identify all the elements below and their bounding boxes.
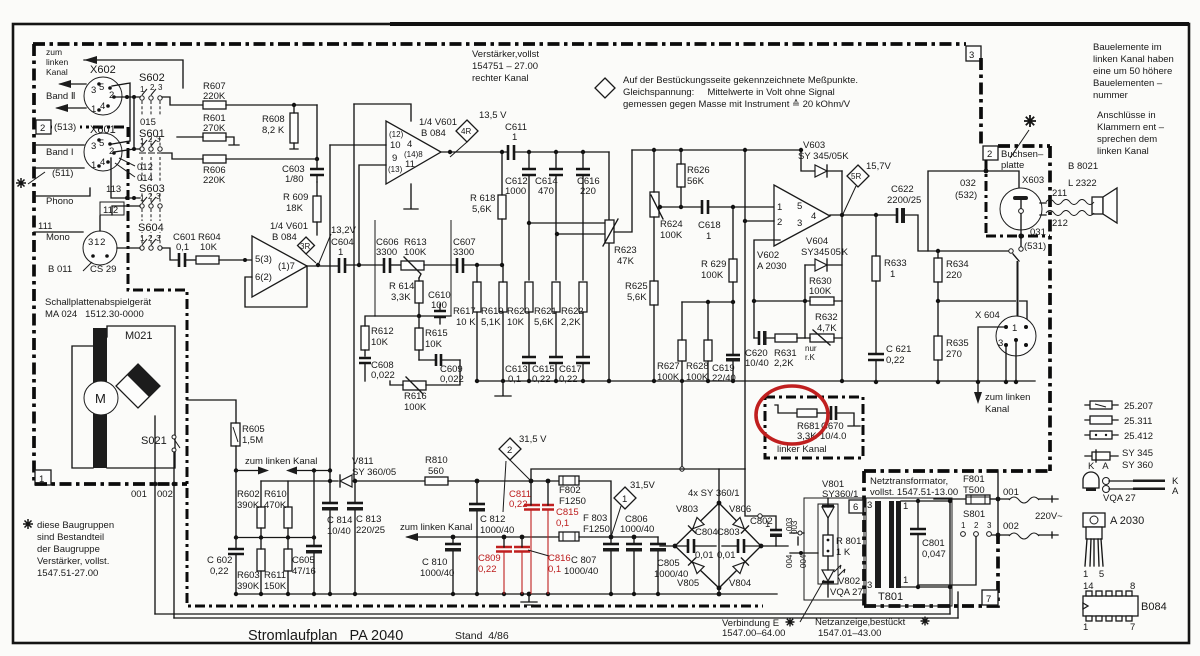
svg-text:004: 004 [799, 554, 808, 568]
svg-text:Stand 4/86: Stand 4/86 [455, 630, 509, 642]
capacitor C607 series [457, 258, 463, 273]
wire band I left [34, 144, 84, 146]
wire T801 to F801 [934, 499, 966, 501]
svg-text:1: 1 [903, 501, 908, 512]
svg-text:VQA 27: VQA 27 [830, 587, 863, 598]
label 112 box [100, 202, 124, 215]
svg-text:R611: R611 [264, 570, 286, 581]
wire 312 to S604 [117, 247, 140, 249]
wire 002 squiggle [996, 533, 1001, 538]
potentiometer R623 in series on signal line [608, 152, 610, 381]
svg-text:47K: 47K [617, 256, 635, 267]
svg-text:R 618: R 618 [470, 193, 495, 204]
svg-text:zum linken Kanal: zum linken Kanal [400, 522, 472, 533]
svg-text:F801: F801 [963, 474, 985, 485]
svg-text:220K: 220K [203, 91, 226, 102]
wire V602 pin2 to feedback vertical [745, 220, 774, 222]
motor M [84, 381, 118, 415]
resistor R681 [775, 405, 797, 413]
diode V604 [805, 264, 842, 266]
svg-text:linken: linken [46, 57, 68, 67]
svg-text:220: 220 [946, 270, 962, 281]
svg-text:3: 3 [156, 234, 161, 243]
svg-text:1 K: 1 K [836, 547, 851, 558]
svg-text:150K: 150K [264, 581, 287, 592]
wire R605 bottom to arrows row [235, 446, 237, 538]
svg-text:B 011: B 011 [48, 264, 72, 275]
svg-text:22/40: 22/40 [712, 373, 736, 384]
svg-text:25.311: 25.311 [1124, 416, 1152, 427]
svg-text:2: 2 [987, 149, 992, 160]
svg-text:M021: M021 [125, 330, 153, 342]
svg-text:0,1: 0,1 [508, 374, 521, 385]
divider rail [261, 480, 425, 482]
svg-text:0,22: 0,22 [478, 564, 497, 575]
svg-text:1: 1 [961, 521, 966, 530]
socket X602 [84, 77, 122, 115]
svg-text:R633: R633 [884, 258, 907, 269]
svg-text:C804: C804 [695, 527, 718, 538]
measurement note diamond [595, 78, 615, 98]
svg-text:R625: R625 [625, 281, 648, 292]
wire C622 down to speaker line [905, 215, 1008, 251]
svg-text:31,5 V: 31,5 V [519, 434, 547, 445]
buchsenplatte block dash-dot top [998, 144, 1050, 148]
filter box rectangle [375, 220, 451, 316]
svg-text:T801: T801 [878, 591, 903, 603]
svg-text:47/16: 47/16 [292, 566, 316, 577]
svg-text:111: 111 [38, 221, 52, 232]
arrow zum linken kanal right [977, 382, 979, 398]
svg-text:Auf der Bestückungsseite geken: Auf der Bestückungsseite gekennzeichnete… [623, 75, 858, 86]
capacitor C807 electrolytic [603, 543, 619, 546]
pointer line buchsenplatte asterisk [1010, 130, 1029, 158]
wire R613 to C607 [424, 264, 457, 266]
power block dash-dot top [864, 469, 1050, 473]
svg-text:1: 1 [1083, 622, 1088, 633]
wire R604 to opamp [219, 259, 252, 261]
capacitor C606 series [384, 258, 390, 273]
wire X601 to S601 [114, 149, 140, 152]
svg-text:470: 470 [538, 186, 554, 197]
wire vertical 001-002 node [997, 471, 999, 535]
wire arrows zum linken kanal [236, 470, 264, 472]
svg-text:Mono: Mono [46, 232, 70, 243]
resistor R617 [473, 282, 481, 312]
svg-text:032: 032 [960, 178, 976, 189]
resistor R606 [203, 155, 226, 163]
squiggle wire 212 [1046, 211, 1094, 216]
buchsenplatte dash-dot left edge [985, 160, 988, 236]
svg-text:Kanal: Kanal [985, 404, 1009, 415]
svg-text:2: 2 [777, 217, 782, 228]
svg-text:270K: 270K [203, 123, 226, 134]
svg-text:3: 3 [867, 500, 872, 511]
resistor R608 [290, 113, 298, 143]
svg-text:linken Kanal haben: linken Kanal haben [1093, 54, 1174, 65]
wire node down to C603 node [316, 105, 318, 159]
svg-text:0,22: 0,22 [210, 566, 229, 577]
capacitor C803 [738, 539, 744, 553]
resistor R627 [678, 340, 686, 361]
switch S603 [138, 182, 168, 193]
switch S601 contacts [140, 147, 144, 151]
svg-text:C 813: C 813 [356, 514, 381, 525]
capacitor C609 [436, 354, 441, 366]
svg-text:100K: 100K [404, 402, 427, 413]
switch linkage dashed verticals [142, 101, 160, 245]
capacitor C804 [688, 539, 694, 553]
svg-text:1000/40: 1000/40 [620, 524, 654, 535]
svg-text:V603: V603 [803, 140, 825, 151]
svg-text:S604: S604 [138, 222, 164, 234]
svg-text:R 801: R 801 [836, 536, 861, 547]
svg-text:C 621: C 621 [886, 344, 911, 355]
ground symbol bottom bus [521, 594, 537, 605]
op-amp U1a V601 first stage [252, 236, 307, 297]
wire V602 pin3 to divider [754, 240, 805, 338]
svg-text:B 084: B 084 [421, 128, 446, 139]
legend LED VQA27 [1083, 472, 1099, 488]
wire R606 to node [226, 158, 317, 160]
svg-text:4: 4 [100, 101, 105, 112]
svg-text:R624: R624 [660, 219, 683, 230]
capacitor C810 electrolytic [445, 543, 461, 546]
svg-text:2,2K: 2,2K [561, 317, 581, 328]
svg-text:2: 2 [148, 234, 153, 243]
wire bottom 001 002 to power [950, 587, 958, 618]
svg-text:10/40: 10/40 [327, 526, 351, 537]
diamond 5R testpoint [847, 165, 869, 187]
wire C607 to R618 node [463, 264, 502, 266]
svg-text:Phono: Phono [46, 196, 73, 207]
capacitor C605 electrolytic [306, 545, 322, 548]
wire M021 to S021 [155, 416, 174, 484]
capacitor C603 [310, 169, 324, 175]
svg-text:1: 1 [622, 494, 627, 505]
svg-text:C 602: C 602 [207, 555, 232, 566]
svg-text:R616: R616 [404, 391, 427, 402]
svg-text:10K: 10K [507, 317, 525, 328]
svg-text:1: 1 [1012, 323, 1017, 334]
inner chain box [818, 504, 838, 584]
svg-text:F802: F802 [559, 485, 581, 496]
red capacitor C811 [524, 505, 540, 510]
resistor R625 [650, 281, 658, 305]
svg-text:5R: 5R [851, 172, 861, 181]
resistor R801 boxed [823, 535, 833, 556]
svg-text:1547.00–64.00: 1547.00–64.00 [722, 628, 785, 639]
svg-text:4: 4 [100, 157, 105, 168]
svg-text:3: 3 [156, 135, 161, 144]
switch lever to X604 [1013, 254, 1019, 261]
svg-text:V802: V802 [838, 576, 860, 587]
svg-text:C 807: C 807 [571, 555, 596, 566]
svg-text:T500: T500 [963, 485, 985, 496]
stereo link wire X602 to X601 [112, 83, 130, 144]
wire bridge left to C805 [660, 545, 675, 547]
svg-text:R810: R810 [425, 455, 448, 466]
svg-text:3: 3 [91, 141, 96, 152]
phono block dash-dot border [128, 127, 763, 606]
svg-text:B 8021: B 8021 [1068, 161, 1098, 172]
svg-text:SY 345: SY 345 [1122, 448, 1153, 459]
svg-text:1: 1 [765, 519, 770, 530]
resistor R622 [579, 282, 587, 312]
svg-text:2,2K: 2,2K [774, 358, 794, 369]
svg-text:0,01: 0,01 [695, 550, 714, 561]
svg-text:6: 6 [853, 502, 858, 513]
bridge diode V804 [733, 558, 749, 574]
ground bus bottom [236, 593, 777, 595]
svg-text:3: 3 [91, 85, 96, 96]
wire ground bus to rail crossing [681, 381, 683, 466]
wire X604 pin3 left down [978, 327, 1004, 382]
svg-text:V811: V811 [352, 456, 373, 467]
potentiometer R613 [401, 261, 424, 270]
switch bus wire vertical [133, 97, 135, 149]
svg-text:15,7V: 15,7V [866, 161, 891, 172]
wire S604 to C601 [162, 248, 178, 260]
svg-text:4: 4 [407, 139, 412, 150]
diamond 1 testpoint [614, 487, 636, 509]
svg-text:C803: C803 [717, 527, 740, 538]
svg-text:31,5V: 31,5V [630, 480, 655, 491]
ground symbol on bus [495, 381, 511, 396]
rail to linken kanal arrow [407, 536, 559, 538]
svg-text:031: 031 [1030, 227, 1046, 238]
svg-text:100K: 100K [686, 372, 709, 383]
svg-text:F 803: F 803 [583, 513, 607, 524]
resistor R629 [729, 259, 737, 282]
resistor R611 [284, 549, 292, 571]
svg-text:1: 1 [706, 231, 711, 242]
svg-text:1000/40: 1000/40 [420, 568, 454, 579]
mid junction row [236, 537, 314, 539]
svg-text:2: 2 [974, 521, 979, 530]
wire F802 to corner [579, 481, 611, 537]
feedback node wire R629 bottom [682, 301, 733, 303]
svg-text:0,1: 0,1 [548, 564, 561, 575]
bridge rectifier outline [675, 503, 761, 588]
svg-text:10/4.0: 10/4.0 [820, 431, 846, 442]
svg-text:sind Bestandteil: sind Bestandteil [37, 532, 104, 543]
red capacitor C809 [496, 547, 512, 552]
output node V602 [830, 214, 897, 216]
bridge diode V803 [689, 517, 705, 533]
svg-text:3300: 3300 [376, 247, 397, 258]
resistor R635 [934, 336, 942, 360]
op-amp U2 V602 power amp [774, 185, 830, 246]
capacitor C615 [549, 357, 563, 363]
diamond 4R testpoint [456, 120, 478, 142]
svg-text:13,5 V: 13,5 V [479, 110, 507, 121]
wire up to X603 032 pin [928, 171, 1019, 251]
resistor R615 [415, 328, 423, 350]
legend resistor 25.412 [1085, 434, 1118, 436]
svg-text:1000/40: 1000/40 [564, 566, 598, 577]
svg-text:1: 1 [777, 202, 782, 213]
wire band II lower with arrow [57, 107, 86, 109]
svg-text:SY 360/05: SY 360/05 [352, 467, 396, 478]
resistor R620 [525, 282, 533, 312]
svg-text:390K: 390K [237, 500, 260, 511]
capacitor C613 [522, 357, 536, 363]
wire rail corner down to 003 node [745, 469, 757, 516]
diamond 3R testpoint [298, 237, 315, 254]
svg-text:C801: C801 [922, 538, 945, 549]
wires 001 002 bottom run [155, 614, 958, 618]
svg-text:Bauelementen –: Bauelementen – [1093, 78, 1163, 89]
socket 312 phono [83, 231, 117, 265]
svg-text:R617: R617 [453, 306, 476, 317]
bridge diode V805 [689, 558, 705, 574]
diamond 2 testpoint [499, 438, 521, 460]
svg-text:L 2322: L 2322 [1068, 178, 1097, 189]
svg-text:R634: R634 [946, 259, 969, 270]
svg-text:270: 270 [946, 349, 962, 360]
svg-text:C815: C815 [556, 507, 579, 518]
svg-text:B 084: B 084 [272, 232, 297, 243]
wire C611 to caps [514, 151, 609, 153]
socket X603 [1000, 188, 1042, 230]
ground bus main [503, 380, 1035, 382]
svg-text:002: 002 [1003, 521, 1019, 532]
netzanzeige block outline [804, 498, 864, 600]
svg-text:0,22: 0,22 [509, 499, 528, 510]
junction C813 column [353, 479, 357, 483]
svg-text:Bauelemente im: Bauelemente im [1093, 42, 1162, 53]
svg-text:100K: 100K [404, 247, 427, 258]
svg-text:220/25: 220/25 [356, 525, 385, 536]
legend resistor 25.207 [1085, 404, 1118, 406]
wire X603 bottom 031 [1020, 214, 1022, 246]
svg-text:Band I: Band I [46, 147, 73, 158]
amplifier block top dash-dot border [33, 42, 966, 46]
svg-text:0,01: 0,01 [717, 550, 736, 561]
svg-text:C809: C809 [478, 553, 501, 564]
svg-text:012: 012 [137, 162, 153, 173]
svg-text:154751 – 27.00: 154751 – 27.00 [472, 61, 538, 72]
svg-text:7: 7 [1130, 622, 1135, 633]
wire C606 to R613 [390, 264, 401, 266]
capacitor C611 series [508, 145, 514, 160]
svg-text:10K: 10K [371, 337, 389, 348]
resistor R603 [257, 549, 265, 571]
svg-text:3300: 3300 [453, 247, 474, 258]
wire bridge bottom to bus [718, 588, 720, 594]
speaker B8021 [1092, 197, 1103, 214]
svg-text:5,6K: 5,6K [534, 317, 554, 328]
feedback wire V602 top [632, 149, 801, 151]
svg-text:1000/40: 1000/40 [480, 525, 514, 536]
capacitor C618 series [702, 200, 708, 214]
capacitor C612 [522, 169, 536, 175]
svg-text:13,2V: 13,2V [331, 225, 356, 236]
asterisk near buchsenplatte [1024, 115, 1036, 127]
LED V802 [822, 570, 834, 581]
svg-text:sprechen dem: sprechen dem [1097, 134, 1157, 145]
switch S601 labels [138, 116, 164, 138]
marker box 3 [966, 46, 981, 61]
pickup head diamond [116, 364, 160, 408]
red capacitor C815 [542, 505, 554, 510]
svg-text:R612: R612 [371, 326, 394, 337]
svg-text:1,5M: 1,5M [242, 435, 263, 446]
svg-text:V806: V806 [729, 504, 751, 515]
svg-text:C622: C622 [891, 184, 914, 195]
svg-text:Verstärker, vollst.: Verstärker, vollst. [37, 556, 109, 567]
svg-text:R619: R619 [481, 306, 504, 317]
switch S604 [137, 221, 167, 232]
svg-text:Buchsen–: Buchsen– [1001, 149, 1044, 160]
svg-text:10/40: 10/40 [745, 358, 769, 369]
squiggle wire 211 [1046, 200, 1094, 205]
wires 001 002 down [155, 487, 174, 618]
buchsenplatte block dash-dot right [1048, 146, 1052, 471]
marker box 1 [35, 470, 51, 485]
marker (513) [52, 120, 80, 132]
svg-text:1/4 V601: 1/4 V601 [270, 221, 308, 232]
svg-text:3: 3 [969, 50, 974, 61]
top border heavy segment [390, 22, 1189, 26]
fuse F801 [966, 495, 990, 504]
text diese baugruppen note with asterisk [23, 519, 33, 529]
svg-text:14: 14 [1083, 581, 1094, 592]
capacitor C813 electrolytic [347, 502, 363, 505]
svg-text:zum linken: zum linken [985, 392, 1030, 403]
socket X604 [996, 316, 1036, 356]
wire (511) with asterisk [16, 178, 26, 188]
tuner/phono divider dash-dot [51, 126, 128, 129]
resistor R612 [361, 326, 369, 350]
wire R624 wiper to C618 [659, 206, 702, 208]
svg-text:MA 024 1512.30-0000: MA 024 1512.30-0000 [45, 309, 144, 320]
capacitor C812 electrolytic [469, 503, 485, 506]
svg-text:1: 1 [512, 132, 517, 143]
capacitor C620 electrolytic series [758, 331, 761, 345]
svg-text:A: A [1172, 486, 1179, 497]
capacitor C806 electrolytic [626, 543, 642, 546]
output wire second stage [441, 151, 508, 153]
bridge diode V806 [733, 517, 749, 533]
node R608 top [292, 103, 296, 107]
output node first stage [316, 263, 320, 267]
svg-text:zum linken Kanal: zum linken Kanal [245, 456, 317, 467]
svg-text:11: 11 [405, 159, 415, 170]
wire S602 to R607 [162, 97, 203, 105]
svg-text:diese Baugruppen: diese Baugruppen [37, 520, 114, 531]
svg-text:R 609: R 609 [283, 192, 308, 203]
svg-text:Gleichspannung: Mittelwert: Gleichspannung: Mittelwerte in Volt ohne… [623, 87, 835, 98]
amplifier block left dash-dot border [32, 44, 36, 484]
svg-text:C805: C805 [657, 558, 680, 569]
svg-text:linker Kanal: linker Kanal [777, 444, 827, 455]
marker box 2 buchsenplatte [983, 146, 998, 160]
svg-text:eine um 50 höhere: eine um 50 höhere [1093, 66, 1172, 77]
resistor R604 [196, 256, 219, 264]
svg-text:004: 004 [785, 554, 794, 568]
wire F801 to 001 squiggle [990, 498, 998, 500]
svg-text:1/4 V601: 1/4 V601 [419, 117, 457, 128]
svg-text:M: M [95, 391, 106, 406]
capacitor C622 electrolytic series [896, 208, 899, 223]
wire 312 up to S603/112 [100, 206, 140, 231]
svg-text:5(3): 5(3) [255, 254, 272, 265]
feedback vertical pin2 down to rail [744, 150, 746, 469]
wire X602 to S602 [114, 96, 140, 98]
legend resistor 25.311 [1085, 419, 1118, 421]
